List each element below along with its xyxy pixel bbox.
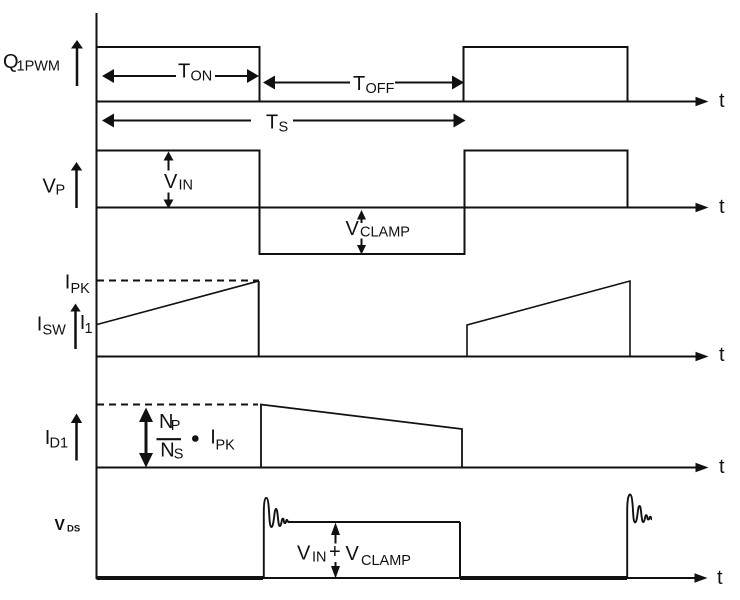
svg-text:t: t	[719, 456, 725, 478]
svg-text:SW: SW	[43, 323, 67, 339]
fraction bar	[157, 438, 182, 440]
svg-text:OFF: OFF	[366, 81, 395, 97]
svg-text:S: S	[174, 447, 184, 463]
waveform VDS low segment 2 (thick)	[460, 576, 627, 580]
label IPK row3	[65, 272, 90, 298]
dashed peak level row4	[97, 404, 258, 406]
bullet dot	[192, 435, 199, 442]
waveform VDS drop	[459, 522, 461, 578]
svg-text:D1: D1	[50, 436, 69, 452]
label TOFF	[353, 73, 395, 97]
label VIN	[164, 171, 193, 194]
VIN dimension arrow	[164, 152, 174, 161]
waveform VDS low segment 1 (thick)	[97, 576, 264, 580]
svg-text:PK: PK	[216, 438, 236, 454]
label TS	[266, 112, 288, 136]
svg-text:t: t	[719, 90, 725, 112]
svg-text:1: 1	[85, 321, 93, 337]
time axis row5	[97, 577, 699, 579]
svg-text:T: T	[266, 112, 278, 134]
TS dimension arrow	[102, 114, 114, 128]
time axis row4	[97, 467, 699, 469]
up arrow row4	[75, 422, 78, 461]
up arrow row2	[75, 170, 78, 208]
vertical axis	[96, 13, 98, 579]
svg-text:T: T	[178, 61, 190, 83]
label VP	[43, 176, 66, 199]
waveform ID1	[261, 405, 462, 468]
time axis row3	[97, 356, 699, 358]
label Q1PWM	[3, 51, 60, 75]
svg-text:CLAMP: CLAMP	[361, 553, 411, 569]
waveform VDS rise with ringing 2	[627, 495, 652, 579]
waveform ISW drop1	[258, 281, 260, 357]
label IPK row4	[210, 427, 235, 454]
label I1	[80, 312, 93, 337]
waveform Q1PWM pulse1	[97, 47, 260, 102]
label VDS	[55, 517, 81, 535]
waveform ISW ramp2	[467, 281, 630, 357]
svg-text:IN: IN	[312, 550, 327, 566]
svg-text:PK: PK	[71, 281, 91, 297]
svg-text:V: V	[55, 517, 66, 534]
svg-text:P: P	[56, 183, 66, 199]
dashed IPK level row3	[97, 280, 259, 282]
svg-text:V: V	[346, 218, 360, 240]
svg-text:S: S	[279, 120, 289, 136]
label NP/NS	[159, 411, 183, 463]
svg-text:t: t	[719, 344, 725, 366]
svg-text:V: V	[43, 176, 57, 198]
time axis row2	[97, 207, 699, 209]
label VCLAMP	[346, 218, 410, 241]
up arrow row1	[76, 48, 79, 86]
svg-text:t: t	[717, 567, 723, 589]
waveform VDS flat top	[288, 521, 460, 523]
svg-text:CLAMP: CLAMP	[360, 225, 410, 241]
label ISW	[37, 314, 66, 339]
svg-text:V: V	[297, 543, 311, 565]
waveform ISW ramp1	[97, 281, 259, 325]
svg-text:N: N	[160, 440, 174, 462]
svg-text:P: P	[171, 418, 181, 434]
NP/NS·IPK dimension arrow	[145, 418, 148, 457]
label VIN + VCLAMP	[297, 541, 411, 569]
svg-text:t: t	[719, 196, 725, 218]
waveform VP	[97, 151, 628, 255]
waveform VDS rise with ringing 1	[264, 498, 289, 578]
svg-text:1PWM: 1PWM	[17, 59, 61, 75]
svg-text:I: I	[65, 272, 71, 294]
waveform Q1PWM pulse2	[464, 47, 628, 102]
svg-text:IN: IN	[179, 178, 194, 194]
VIN+VCLAMP dimension arrow	[331, 523, 340, 536]
svg-text:DS: DS	[67, 524, 80, 535]
label ID1	[45, 427, 68, 452]
TOFF dimension arrow	[263, 76, 275, 90]
svg-text:V: V	[164, 171, 178, 193]
label TON	[178, 61, 212, 85]
svg-text:ON: ON	[191, 69, 213, 85]
svg-text:T: T	[353, 73, 365, 95]
VCLAMP dimension arrow	[357, 210, 366, 220]
svg-text:V: V	[346, 543, 360, 565]
svg-text:+: +	[329, 541, 341, 563]
TON dimension arrow	[102, 69, 114, 83]
up arrow row3	[74, 311, 77, 349]
time axis row1	[97, 101, 699, 103]
svg-text:I: I	[37, 314, 43, 336]
